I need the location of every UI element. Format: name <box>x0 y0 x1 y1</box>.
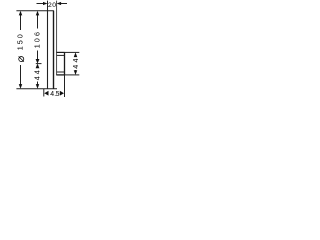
dimension D150 label <box>15 34 27 62</box>
dimension 20 line right with arrow <box>60 3 67 5</box>
svg-text:0: 0 <box>52 2 56 9</box>
svg-text:4: 4 <box>71 65 80 69</box>
dimension 20 label <box>48 2 56 9</box>
dimension 44 right arrow down <box>74 70 78 75</box>
plate outline (escutcheon side view) <box>48 11 54 89</box>
wall line <box>56 1 58 75</box>
dimension 44 right extension bottom <box>65 74 80 76</box>
dimension 106 line <box>37 13 39 61</box>
dimension 44 right arrow up <box>74 52 78 57</box>
extension line bottom (plate bottom reference) <box>16 88 57 90</box>
dimension D150 arrow up <box>19 11 23 16</box>
background <box>0 0 100 100</box>
dimension 20 line left with arrow <box>37 3 45 5</box>
dimension D150 line <box>20 13 22 87</box>
svg-text:⌀: ⌀ <box>15 55 27 62</box>
dimension 106 label <box>33 32 42 48</box>
dimension 44 right label <box>71 59 80 69</box>
dimension 4.5 arrow left <box>44 91 48 96</box>
dimension 44 left arrow up <box>36 64 40 69</box>
svg-text:0: 0 <box>15 34 24 38</box>
dimension D150 arrow down <box>19 84 23 89</box>
dimension 4.5 extension left <box>43 89 45 97</box>
extension line top (plate top reference) <box>16 10 54 12</box>
dimension 4.5 arrow right <box>60 91 64 96</box>
dimension 4.5 extension right <box>64 75 66 97</box>
svg-text:4: 4 <box>33 76 42 80</box>
svg-text:4: 4 <box>71 59 80 63</box>
svg-text:6: 6 <box>33 32 42 36</box>
extension stub at valve axis <box>36 63 42 65</box>
svg-text:1: 1 <box>33 44 42 48</box>
dimension 106 arrow down <box>36 59 40 64</box>
valve box inner bottom line <box>57 71 65 73</box>
dimension 44 right extension top <box>65 51 80 53</box>
dimension 44 left line <box>37 82 39 87</box>
svg-text:5: 5 <box>15 40 24 44</box>
dimension 44 left label <box>33 70 42 80</box>
svg-text:4: 4 <box>33 70 42 74</box>
valve box outline <box>56 52 64 75</box>
svg-text:1: 1 <box>15 46 24 50</box>
valve box inner top line <box>57 54 65 56</box>
dimension 20 extension left <box>47 1 49 11</box>
dimension 44 right line <box>75 55 77 73</box>
dimension 44 left arrow down <box>36 84 40 89</box>
svg-text:0: 0 <box>33 38 42 42</box>
dimension 106 arrow up <box>36 11 40 16</box>
dimension 4.5 label <box>50 91 59 98</box>
svg-text:5: 5 <box>56 91 60 98</box>
